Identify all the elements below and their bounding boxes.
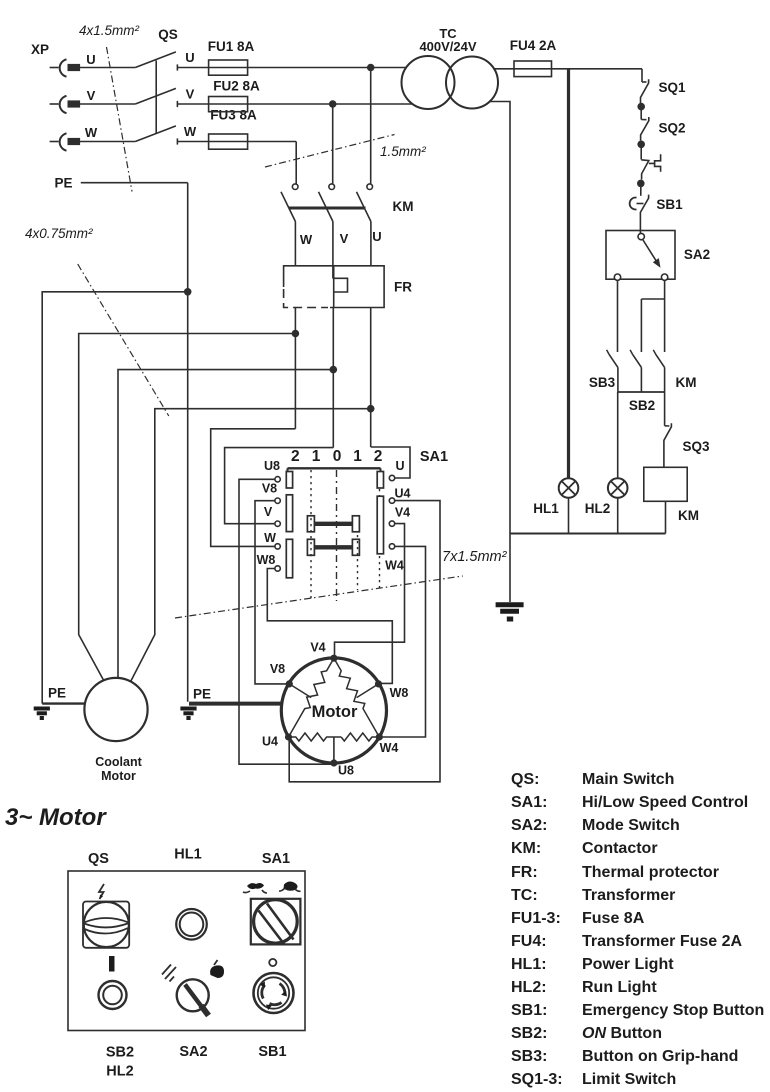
svg-text:W: W (184, 124, 197, 139)
contactor KM pole V blade (319, 192, 333, 222)
svg-text:FU3 8A: FU3 8A (210, 108, 257, 123)
svg-text:4x0.75mm²: 4x0.75mm² (25, 226, 93, 241)
panel QS rotary switch (83, 902, 129, 948)
contactor KM linkage bar (289, 207, 366, 210)
SA1 position column dotted 1(left) (310, 470, 312, 601)
svg-text:SB2:: SB2: (511, 1025, 547, 1042)
SA1 fixed contact bar right U4-V4-W4 (377, 496, 383, 554)
wire KM pole V to FR (332, 222, 334, 279)
SA1 terminal V (275, 521, 280, 526)
svg-text:SA1:: SA1: (511, 794, 547, 811)
svg-text:W8: W8 (257, 553, 276, 567)
wire phase V (QS to transformer) (177, 103, 412, 105)
svg-text:FU1 8A: FU1 8A (208, 39, 255, 54)
svg-text:V8: V8 (262, 482, 277, 496)
svg-text:KM:: KM: (511, 840, 541, 857)
svg-text:U: U (395, 459, 404, 473)
svg-text:1: 1 (312, 448, 321, 465)
svg-text:Power Light: Power Light (582, 956, 674, 973)
svg-text:Contactor: Contactor (582, 840, 658, 857)
svg-text:V: V (87, 88, 96, 103)
SA1 terminal W4 (389, 544, 394, 549)
wire W8 to motor (267, 569, 392, 684)
wire phase U (QS to transformer) (177, 67, 407, 69)
contactor KM pole U blade (357, 192, 371, 222)
motor winding right (V4-W4) (334, 658, 379, 737)
svg-text:7x1.5mm²: 7x1.5mm² (442, 549, 508, 565)
svg-text:SA2: SA2 (684, 247, 710, 262)
run light HL2 (585, 478, 628, 516)
svg-text:400V/24V: 400V/24V (419, 39, 476, 54)
svg-text:U8: U8 (338, 764, 354, 778)
wire KM pole W to FR (294, 222, 296, 266)
motor terminal U4 (285, 733, 292, 740)
motor terminal V4 (330, 655, 337, 662)
svg-text:Coolant: Coolant (95, 755, 142, 769)
connector XP pin V (50, 103, 59, 105)
motor terminal V8 (286, 680, 293, 687)
svg-text:V: V (186, 87, 195, 102)
svg-text:2: 2 (291, 448, 300, 465)
wire W drop to KM (295, 142, 297, 184)
thermal protector FR heater element (334, 278, 348, 292)
main switch QS pole V blade (135, 88, 176, 104)
svg-text:1.5mm²: 1.5mm² (380, 144, 426, 159)
wire branch to SB2 (641, 298, 664, 300)
fuse FU2 (209, 97, 248, 112)
wire V below FR (332, 308, 334, 448)
panel tortoise icon (279, 882, 301, 892)
wire PE horizontal (81, 182, 188, 184)
SA1 position numbers 2 1 0 1 2 (291, 448, 382, 465)
motor terminal W4 (376, 733, 383, 740)
cable marker dash-dot 4x0.75 (78, 264, 169, 416)
wire SA2 right output down (664, 280, 666, 352)
svg-text:W: W (85, 125, 98, 140)
panel SA2 mode knob icons (162, 965, 176, 982)
SA1 position column dotted 1(right) (357, 535, 359, 590)
svg-text:1: 1 (353, 448, 362, 465)
svg-text:XP: XP (31, 42, 49, 57)
contactor auxiliary contact KM (653, 350, 696, 392)
svg-text:HL1: HL1 (174, 847, 201, 863)
junction V phase tap (329, 100, 337, 108)
SA1 terminal U8 (275, 477, 280, 482)
svg-text:KM: KM (393, 199, 414, 214)
svg-text:SA2:: SA2: (511, 817, 547, 834)
contactor KM pole W blade (281, 192, 295, 222)
wire U4 to motor (289, 501, 440, 782)
panel QS pointer bar (109, 956, 115, 972)
svg-text:FR: FR (394, 280, 412, 295)
junction coolant tap W (292, 330, 300, 338)
panel lightning icon above QS knob (99, 884, 104, 899)
svg-text:U8: U8 (264, 459, 280, 473)
SA1 terminal U (389, 475, 394, 480)
svg-text:SQ1-3:: SQ1-3: (511, 1071, 563, 1088)
limit switch SQ2 (641, 117, 686, 141)
wire U to QS (79, 67, 135, 69)
svg-text:Button on Grip-hand: Button on Grip-hand (582, 1048, 738, 1065)
svg-text:TC:: TC: (511, 887, 538, 904)
svg-text:HL1:: HL1: (511, 956, 547, 973)
svg-text:Transformer Fuse 2A: Transformer Fuse 2A (582, 933, 743, 950)
svg-text:FU1-3:: FU1-3: (511, 910, 561, 927)
wire rail down to SQ3 (664, 392, 666, 426)
svg-text:Run Light: Run Light (582, 979, 657, 996)
svg-text:Emergency Stop Button: Emergency Stop Button (582, 1002, 764, 1019)
cable marker dash-dot 4x1.5 (107, 47, 133, 192)
svg-text:PE: PE (54, 176, 72, 191)
svg-text:SQ3: SQ3 (682, 439, 710, 454)
wire phase W (QS to corner) (177, 141, 296, 143)
junction dot below SQ2 (637, 141, 645, 149)
svg-text:HL2: HL2 (106, 1064, 133, 1080)
SA1 terminal W (275, 544, 280, 549)
svg-text:KM: KM (676, 375, 697, 390)
svg-text:SB1: SB1 (656, 197, 683, 212)
svg-text:SB2: SB2 (629, 398, 655, 413)
wire SA2 left output down (617, 280, 619, 352)
motor winding bottom left (U4-U8) (289, 733, 342, 741)
QS pole U fixed contact tick (176, 64, 178, 70)
wire PE branch to coolant motor (42, 292, 188, 704)
svg-text:QS: QS (88, 851, 109, 867)
svg-text:HL1: HL1 (533, 501, 559, 516)
svg-text:SQ1: SQ1 (658, 80, 686, 95)
wire 24V return rail (510, 533, 666, 535)
svg-text:Motor: Motor (312, 703, 358, 721)
wire KM coil to rail (665, 501, 667, 533)
fuse FU3 (209, 134, 248, 149)
QS pole V fixed contact tick (176, 101, 178, 107)
emergency stop button SB1 (630, 187, 683, 217)
svg-text:Main Switch: Main Switch (582, 771, 674, 788)
svg-text:Limit Switch: Limit Switch (582, 1071, 676, 1088)
svg-text:FU2 8A: FU2 8A (213, 79, 260, 94)
control panel outline (68, 871, 305, 1031)
legend (511, 771, 764, 1088)
ground (main motor) (180, 709, 196, 719)
QS pole W fixed contact tick (176, 138, 178, 144)
wire SQ1 to SQ2 (640, 110, 642, 120)
svg-text:Mode Switch: Mode Switch (582, 817, 680, 834)
wire KM pole U to FR (370, 222, 372, 266)
wire coolant V branch (118, 370, 333, 678)
svg-text:V4: V4 (310, 641, 325, 655)
wire V8 to motor (255, 501, 287, 684)
svg-text:Hi/Low Speed Control: Hi/Low Speed Control (582, 794, 748, 811)
wire TC secondary return (489, 102, 510, 603)
svg-text:W4: W4 (380, 741, 399, 755)
motor winding left (V4-U4) (289, 658, 334, 737)
wire coolant U branch (131, 409, 371, 682)
transformer TC secondary winding (446, 57, 498, 109)
wire U below FR (370, 308, 372, 448)
SA1 terminal V8 (275, 498, 280, 503)
pushbutton SB2 (629, 350, 655, 413)
svg-text:KM: KM (678, 508, 699, 523)
SA1 terminal U4 (389, 498, 394, 503)
svg-text:U: U (86, 52, 95, 67)
ground (control circuit) (496, 605, 524, 619)
svg-text:QS:: QS: (511, 771, 539, 788)
svg-text:V8: V8 (270, 662, 285, 676)
svg-text:W: W (264, 531, 276, 545)
wire coolant W branch (79, 334, 296, 681)
svg-text:0: 0 (333, 448, 342, 465)
pushbutton SB3 (589, 350, 618, 392)
svg-text:Fuse 8A: Fuse 8A (582, 910, 645, 927)
svg-text:U: U (185, 50, 194, 65)
svg-text:U: U (372, 229, 381, 244)
svg-text:ON Button: ON Button (582, 1025, 662, 1042)
panel button SB2 / lamp HL2 (99, 981, 127, 1009)
panel SA2 mode knob (177, 979, 209, 1015)
panel lamp HL1 (176, 909, 207, 940)
interlock plunger contact (641, 148, 660, 180)
limit switch SQ3 (664, 423, 710, 467)
contactor KM pole W terminal (292, 184, 298, 190)
coolant motor M (84, 678, 147, 741)
svg-text:FU4 2A: FU4 2A (510, 38, 557, 53)
junction PE tap (184, 288, 192, 296)
svg-text:U4: U4 (395, 487, 411, 501)
SA1 terminal W8 (275, 566, 280, 571)
limit switch SQ1 (641, 79, 686, 103)
cable marker dash-dot 7x1.5 (175, 576, 463, 618)
junction dot below plunger (637, 180, 645, 188)
fuse FU1 (209, 60, 248, 75)
svg-text:QS: QS (158, 27, 178, 42)
svg-text:FR:: FR: (511, 864, 538, 881)
svg-text:FU4:: FU4: (511, 933, 547, 950)
fuse FU4 (514, 61, 552, 77)
svg-text:Transformer: Transformer (582, 887, 675, 904)
wire U route to SA1 (371, 447, 410, 478)
motor winding bottom right (U8-W4) (341, 733, 379, 741)
SA1 fixed contact bar left W-W8 (286, 539, 292, 578)
SA1 fixed contact bar left U8 (286, 472, 292, 489)
SA1 position column dotted 2(right) (379, 489, 381, 590)
wire HL1 bottom lead (568, 498, 570, 534)
panel SB1 emergency stop (254, 959, 294, 1013)
svg-text:HL2:: HL2: (511, 979, 547, 996)
motor terminal W8 (375, 680, 382, 687)
mode switch SA2 (606, 231, 710, 281)
junction coolant tap U (367, 405, 375, 413)
SA1 fixed contact bar left V8-V (286, 495, 292, 532)
SA1 terminal V4 (389, 521, 394, 526)
svg-text:SB3: SB3 (589, 375, 616, 390)
wire W to QS (79, 141, 135, 143)
svg-text:W: W (300, 232, 313, 247)
wire TC secondary to FU4 (494, 68, 642, 70)
svg-text:SQ2: SQ2 (658, 121, 685, 136)
SA1 top common bar (288, 467, 381, 469)
svg-text:SB1: SB1 (258, 1044, 286, 1060)
svg-text:SB1:: SB1: (511, 1002, 547, 1019)
main switch QS pole U blade (135, 52, 176, 68)
svg-text:Motor: Motor (101, 769, 136, 783)
svg-text:3~ Motor: 3~ Motor (5, 804, 107, 831)
junction U phase tap (367, 64, 375, 72)
svg-text:SB2: SB2 (106, 1045, 134, 1061)
thermal protector FR box (284, 266, 413, 308)
wire FU4 output corner down to SQ1 (641, 69, 643, 82)
contactor KM pole V terminal (329, 184, 335, 190)
wire V4 to motor (335, 524, 405, 656)
panel SA1 speed selector (251, 899, 301, 945)
svg-text:V: V (340, 231, 349, 246)
svg-text:HL2: HL2 (585, 501, 611, 516)
svg-text:SA1: SA1 (420, 449, 448, 465)
wire SB1 to SA2 (639, 217, 641, 234)
transformer TC primary winding (402, 56, 455, 109)
wire HL2 bottom lead (617, 498, 619, 534)
svg-text:W4: W4 (385, 559, 404, 573)
power light HL1 (533, 478, 578, 516)
wire U drop to KM (370, 68, 372, 184)
connector XP pin U (50, 67, 59, 69)
wire W below FR (294, 308, 296, 429)
svg-text:PE: PE (193, 687, 211, 702)
svg-text:4x1.5mm²: 4x1.5mm² (79, 23, 140, 38)
ground (coolant motor) (34, 709, 50, 719)
SA1 position column dash-dot 0 (336, 470, 338, 601)
svg-text:V: V (264, 505, 273, 519)
svg-text:V4: V4 (395, 506, 410, 520)
panel hare icon (243, 883, 267, 893)
QS linkage (155, 61, 157, 134)
wire PE to coolant motor frame (42, 702, 84, 704)
svg-text:SB3:: SB3: (511, 1048, 547, 1065)
wire W route to SA1 (211, 429, 296, 547)
main switch QS pole W blade (135, 126, 176, 142)
svg-text:SA1: SA1 (262, 851, 290, 867)
svg-text:Thermal protector: Thermal protector (582, 864, 719, 881)
svg-text:SA2: SA2 (179, 1044, 207, 1060)
svg-text:U4: U4 (262, 735, 278, 749)
wire V drop to KM (332, 104, 334, 184)
wire PE to main motor frame (thick) (189, 702, 282, 706)
wire 24V supply drop (thick) to HL1 (567, 69, 570, 478)
motor tap U8 stub (333, 737, 335, 763)
motor M frame (281, 658, 386, 763)
cable marker dash-dot 1.5 (265, 135, 395, 168)
wire W4 to motor (382, 546, 426, 737)
motor tap V8 stub (289, 684, 311, 698)
connector XP pin W (50, 141, 59, 143)
wire U8 to motor (239, 479, 332, 764)
motor terminal U8 (330, 759, 337, 766)
wire V to QS (79, 103, 135, 105)
SA1 fixed contact bar right top (377, 472, 383, 489)
contactor coil KM (644, 467, 699, 523)
wire junction rail SB3/SB2/KM (618, 391, 665, 393)
junction coolant tap V (330, 366, 338, 374)
SA1 moving contact lower (bridge) (307, 539, 359, 555)
motor tap W8 stub (357, 684, 379, 698)
wire V route to SA1 (225, 448, 334, 524)
svg-text:PE: PE (48, 686, 66, 701)
wire PE main vertical (187, 183, 189, 702)
svg-text:2: 2 (374, 448, 383, 465)
contactor KM pole U terminal (367, 184, 373, 190)
SA1 moving contact upper (bridge) (307, 516, 359, 532)
svg-text:W8: W8 (390, 686, 409, 700)
wire HL2 top lead (617, 392, 619, 478)
junction dot below SQ1 (637, 103, 645, 111)
